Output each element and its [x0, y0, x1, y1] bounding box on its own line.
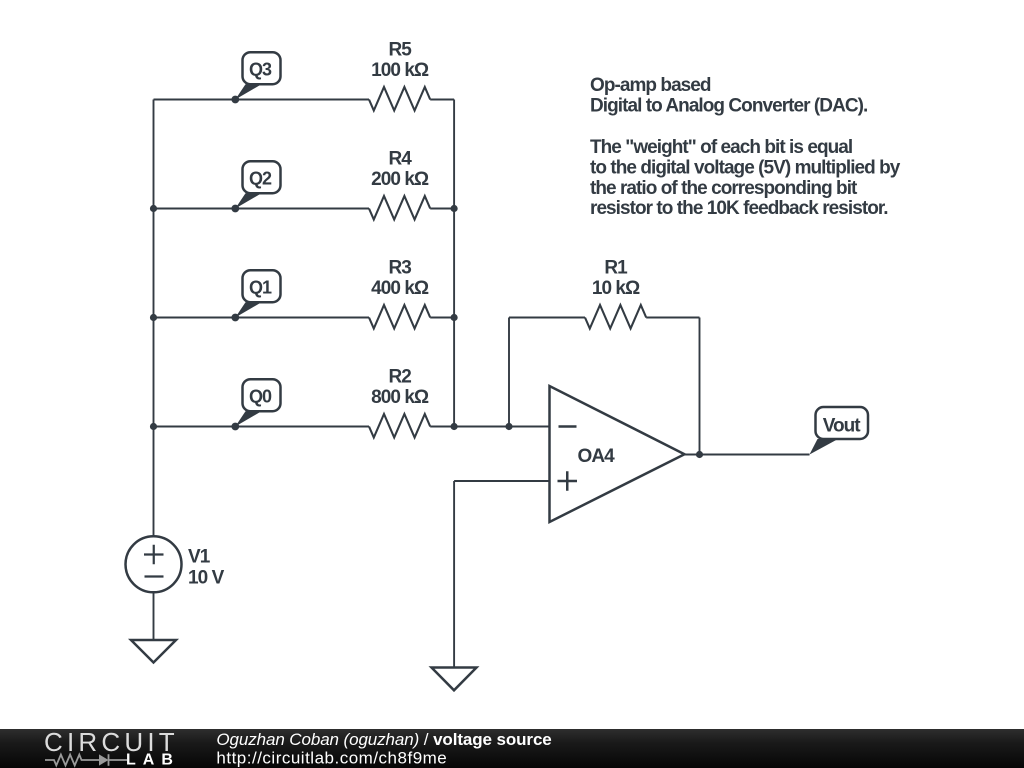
junction node left bus row4 — [150, 423, 157, 430]
svg-text:Q1: Q1 — [249, 278, 272, 298]
svg-text:the ratio of the corresponding: the ratio of the corresponding bit — [590, 178, 858, 199]
svg-text:10 V: 10 V — [188, 568, 225, 589]
flag box Vout — [816, 407, 869, 439]
wire row2 right segment — [430, 208, 454, 210]
flag box Q2 — [243, 161, 281, 193]
wire row4 right segment — [430, 426, 454, 428]
svg-text:Op-amp based: Op-amp based — [590, 75, 711, 96]
svg-text:resistor to the 10K feedback r: resistor to the 10K feedback resistor. — [590, 198, 888, 219]
svg-text:Q0: Q0 — [249, 387, 272, 407]
node dot Q3 — [231, 96, 239, 104]
svg-text:800 kΩ: 800 kΩ — [371, 387, 429, 408]
svg-text:Vout: Vout — [823, 416, 862, 437]
junction node op-amp output — [696, 451, 703, 458]
V1 minus sign — [145, 575, 164, 577]
resistor R1 zigzag — [585, 305, 646, 329]
flag box Q0 — [243, 379, 281, 411]
svg-text:http://circuitlab.com/ch8f9me: http://circuitlab.com/ch8f9me — [216, 748, 447, 767]
resistor R2 zigzag — [369, 414, 430, 438]
wire feedback right vertical — [699, 318, 701, 455]
svg-text:to the digital voltage (5V) mu: to the digital voltage (5V) multiplied b… — [590, 158, 901, 179]
wire non-inverting input — [454, 480, 549, 482]
wire feedback top left segment — [509, 317, 585, 319]
logo diode triangle — [99, 754, 109, 765]
svg-text:100 kΩ: 100 kΩ — [371, 60, 429, 81]
V1 plus sign — [144, 545, 164, 564]
svg-text:R3: R3 — [389, 258, 412, 279]
junction node right bus row2 — [451, 205, 458, 212]
voltage source V1 circle — [126, 536, 182, 592]
junction node right bus row4 — [451, 423, 458, 430]
svg-text:Q2: Q2 — [249, 169, 272, 189]
svg-text:R5: R5 — [389, 40, 413, 61]
svg-text:LAB: LAB — [126, 752, 180, 768]
wire left bus vertical — [153, 100, 155, 537]
node dot Q0 — [231, 423, 239, 431]
flag tail Q2 — [235, 193, 261, 208]
svg-text:R1: R1 — [604, 258, 628, 279]
flag tail Q3 — [235, 84, 261, 99]
resistor R3 zigzag — [369, 305, 430, 329]
svg-text:10 kΩ: 10 kΩ — [592, 278, 640, 299]
ground under V1 — [131, 640, 176, 663]
node dot Q2 — [231, 205, 239, 213]
svg-text:400 kΩ: 400 kΩ — [371, 278, 429, 299]
resistor R5 zigzag — [369, 87, 430, 111]
junction node left bus row2 — [150, 205, 157, 212]
ground under op-amp plus input — [432, 668, 477, 691]
wire V1 bottom to ground — [153, 592, 155, 640]
wire row3 right segment — [430, 317, 454, 319]
junction node right bus row3 — [451, 314, 458, 321]
svg-text:The "weight" of each bit is eq: The "weight" of each bit is equal — [590, 137, 852, 158]
wire non-inverting to ground — [453, 481, 455, 668]
annotation text block — [590, 75, 901, 219]
wire row1 right segment — [430, 99, 454, 101]
flag box Q1 — [243, 270, 281, 302]
flag tail Vout — [810, 439, 839, 455]
flag box Q3 — [243, 52, 281, 84]
svg-text:Q3: Q3 — [249, 60, 272, 80]
wire feedback left vertical — [508, 318, 510, 427]
flag tail Q1 — [235, 302, 261, 317]
flag tail Q0 — [235, 411, 261, 426]
wire feedback top right segment — [646, 317, 699, 319]
wire row4 left segment — [154, 426, 370, 428]
svg-text:200 kΩ: 200 kΩ — [371, 169, 429, 190]
wire inverting input — [454, 426, 549, 428]
resistor R4 zigzag — [369, 196, 430, 220]
svg-text:R4: R4 — [389, 149, 413, 170]
wire row2 left segment — [154, 208, 370, 210]
svg-text:V1: V1 — [188, 547, 211, 568]
svg-text:Oguzhan Coban (oguzhan) / volt: Oguzhan Coban (oguzhan) / voltage source — [216, 730, 551, 749]
wire op-amp output — [685, 454, 810, 456]
op-amp U1 triangle — [550, 386, 685, 522]
wire row1 left segment — [154, 99, 370, 101]
wire right bus vertical — [453, 100, 455, 427]
op-amp plus sign — [558, 471, 578, 490]
junction node feedback tap — [505, 423, 512, 430]
wire row3 left segment — [154, 317, 370, 319]
svg-text:Digital to Analog Converter (D: Digital to Analog Converter (DAC). — [590, 95, 867, 116]
op-amp minus sign — [559, 425, 577, 428]
node dot Q1 — [231, 314, 239, 322]
svg-text:R2: R2 — [389, 367, 412, 388]
logo resistor-diode glyph — [45, 754, 127, 766]
svg-text:OA4: OA4 — [578, 446, 616, 467]
junction node left bus row3 — [150, 314, 157, 321]
